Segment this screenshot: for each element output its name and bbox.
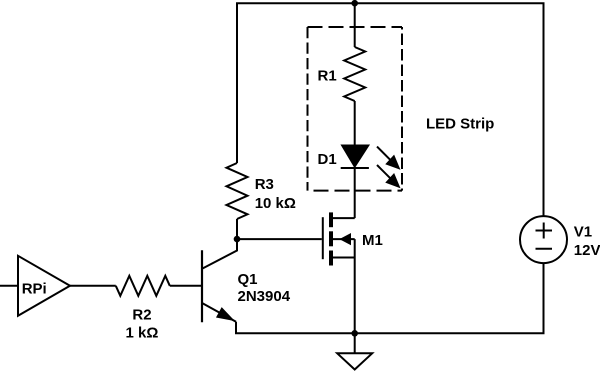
wire main loop left-top-right (237, 3, 544, 216)
source V1 (520, 216, 567, 263)
mosfet M1 (323, 212, 355, 265)
svg-text:10 kΩ: 10 kΩ (255, 195, 296, 212)
wire D1 to M1 drain (354, 168, 356, 218)
transistor Q1 (202, 239, 237, 322)
svg-text:12V: 12V (574, 242, 600, 259)
dashed box LED Strip (308, 27, 403, 191)
wire top to R1 (354, 3, 356, 47)
svg-text:V1: V1 (574, 224, 592, 241)
node A junction (234, 236, 241, 243)
resistor R2 (116, 276, 170, 296)
wire R2 to Q1 base (170, 285, 202, 287)
svg-text:RPi: RPi (22, 281, 47, 298)
svg-text:M1: M1 (362, 232, 383, 249)
svg-text:LED Strip: LED Strip (426, 116, 494, 133)
wire gate (237, 238, 322, 240)
LED D1 (341, 146, 399, 187)
svg-text:R2: R2 (132, 307, 151, 324)
svg-text:2N3904: 2N3904 (238, 288, 291, 305)
ground (337, 333, 372, 369)
buffer RPi (18, 256, 70, 316)
resistor R3 (227, 163, 248, 219)
wire bottom rail (236, 263, 544, 333)
wire R3 to node A (236, 219, 238, 239)
resistor R1 (344, 47, 365, 101)
svg-text:R1: R1 (318, 68, 337, 85)
svg-text:1 kΩ: 1 kΩ (126, 325, 159, 342)
wire input to RPi (0, 285, 18, 287)
svg-text:Q1: Q1 (238, 271, 258, 288)
wire R1 to D1 (354, 101, 356, 146)
wire RPi to R2 (70, 285, 116, 287)
svg-text:R3: R3 (255, 176, 274, 193)
svg-text:D1: D1 (318, 151, 337, 168)
node B junction (351, 330, 358, 337)
node top junction (351, 0, 358, 7)
wire M1 source down to bottom rail (354, 239, 356, 333)
